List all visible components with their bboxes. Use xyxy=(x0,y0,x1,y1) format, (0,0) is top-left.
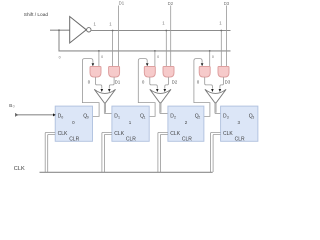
svg-text:1: 1 xyxy=(144,116,146,120)
svg-text:CLK: CLK xyxy=(223,131,233,137)
svg-text:D3: D3 xyxy=(224,1,230,6)
svg-text:D1: D1 xyxy=(115,80,121,85)
svg-text:0: 0 xyxy=(61,116,63,120)
svg-text:CLR: CLR xyxy=(182,137,192,143)
svg-text:2: 2 xyxy=(174,116,176,120)
svg-text:Shift / Load: Shift / Load xyxy=(24,12,49,18)
svg-text:CLK: CLK xyxy=(170,131,180,137)
svg-text:CLK: CLK xyxy=(114,131,124,137)
svg-text:0: 0 xyxy=(101,55,103,59)
svg-text:2: 2 xyxy=(198,116,200,120)
svg-text:3: 3 xyxy=(252,116,254,120)
svg-text:D2: D2 xyxy=(168,1,174,6)
svg-text:CLR: CLR xyxy=(235,137,245,143)
svg-text:D2: D2 xyxy=(172,80,178,85)
svg-text:CLR: CLR xyxy=(126,137,136,143)
svg-text:CLR: CLR xyxy=(69,137,79,143)
svg-text:1: 1 xyxy=(118,116,120,120)
svg-text:0: 0 xyxy=(212,55,214,59)
svg-text:0: 0 xyxy=(13,105,15,109)
svg-text:0: 0 xyxy=(157,55,159,59)
svg-text:D1: D1 xyxy=(119,1,125,6)
svg-text:CLK: CLK xyxy=(58,131,68,137)
svg-text:0: 0 xyxy=(87,116,89,120)
svg-text:CLK: CLK xyxy=(14,166,25,172)
svg-text:3: 3 xyxy=(227,116,229,120)
svg-text:D3: D3 xyxy=(225,80,231,85)
svg-text:0: 0 xyxy=(59,55,61,59)
